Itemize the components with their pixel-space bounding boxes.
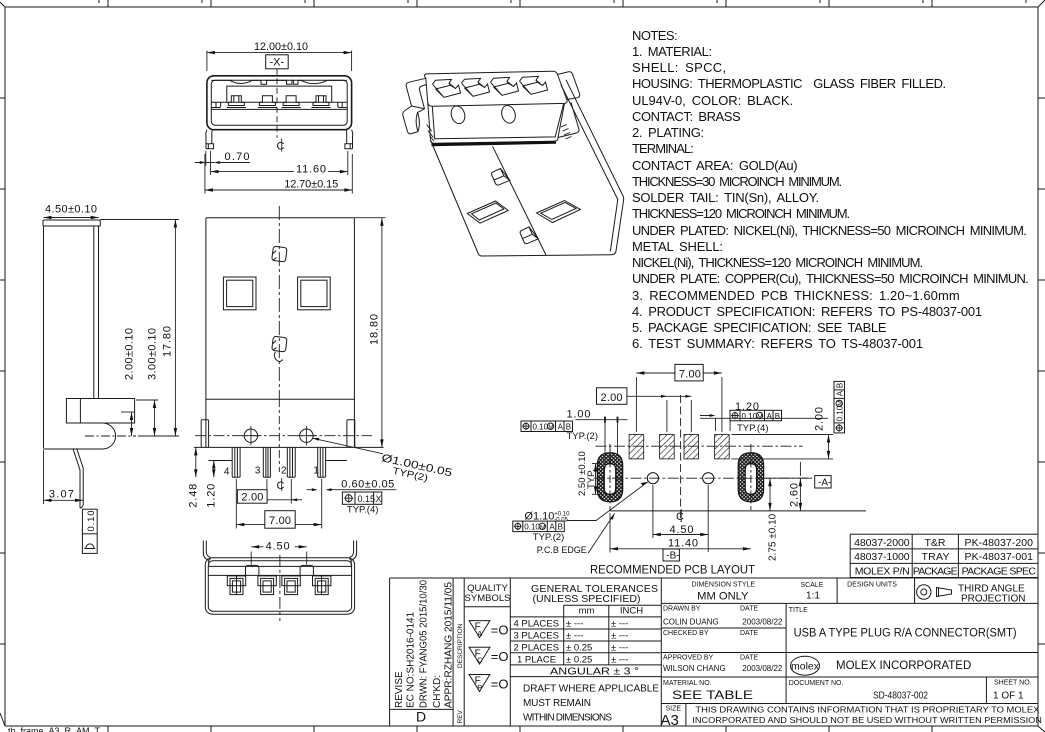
- contact slot 1: [433, 79, 461, 97]
- svg-text:CONTACT: BRASS: CONTACT: BRASS: [632, 109, 741, 124]
- svg-text:5. PACKAGE SPECIFICATION: SEE: 5. PACKAGE SPECIFICATION: SEE TABLE: [632, 320, 887, 335]
- oval centerlines: [610, 444, 751, 510]
- svg-text:M: M: [837, 400, 844, 405]
- svg-text:REVISE: REVISE: [394, 671, 405, 708]
- svg-text:DOCUMENT NO.: DOCUMENT NO.: [789, 680, 844, 687]
- svg-text:A: A: [549, 523, 555, 532]
- dim 0.70: [195, 162, 250, 164]
- hole 1: [647, 473, 658, 484]
- svg-text:4. PRODUCT SPECIFICATION: REFE: 4. PRODUCT SPECIFICATION: REFERS TO PS-4…: [632, 304, 982, 319]
- svg-text:MOLEX P/N: MOLEX P/N: [855, 565, 910, 577]
- svg-text:2003/08/22: 2003/08/22: [742, 664, 783, 673]
- svg-text:=O: =O: [491, 623, 509, 638]
- dim 2.00 vertical right: [732, 435, 834, 459]
- pcb edge: [610, 510, 866, 512]
- molex logo: [791, 656, 820, 675]
- right latch hatch ticks: [427, 125, 572, 142]
- svg-text:2.75 ±0.10: 2.75 ±0.10: [768, 513, 779, 561]
- svg-text:7.00: 7.00: [269, 515, 291, 527]
- svg-text:B: B: [558, 523, 563, 532]
- svg-text:ANGULAR ± 3 °: ANGULAR ± 3 °: [550, 666, 639, 678]
- svg-text:1. MATERIAL:: 1. MATERIAL:: [632, 44, 712, 59]
- svg-text:TRAY: TRAY: [922, 551, 950, 563]
- hole row centerline: [594, 477, 812, 479]
- window left parallelogram: [467, 201, 508, 223]
- solder lead: [73, 448, 83, 508]
- svg-text:1: 1: [313, 466, 319, 477]
- svg-text:PK-48037-200: PK-48037-200: [965, 537, 1034, 549]
- shelf line: [211, 101, 347, 103]
- notes text block: [632, 28, 1029, 351]
- svg-text:± ---: ± ---: [611, 654, 628, 665]
- U slot end: [44, 423, 116, 449]
- svg-text:SYMBOLS: SYMBOLS: [465, 593, 511, 604]
- svg-text:4.50: 4.50: [266, 541, 290, 553]
- contact 3: [282, 576, 300, 595]
- svg-text:=O: =O: [491, 676, 509, 691]
- svg-text:TYP.(4): TYP.(4): [737, 423, 769, 434]
- svg-text:2.00±0.10: 2.00±0.10: [124, 328, 136, 380]
- svg-text:4: 4: [224, 467, 230, 478]
- main body: [431, 80, 624, 256]
- svg-text:0.15: 0.15: [358, 494, 376, 504]
- right band tab: [558, 103, 579, 138]
- dim 7.00 boxed: [636, 377, 722, 432]
- contact bump 2: [259, 96, 275, 106]
- window right parallelogram: [537, 201, 581, 223]
- window right: [298, 277, 331, 310]
- svg-text:=O: =O: [491, 649, 509, 664]
- dim 3.00±0.10: [136, 399, 158, 401]
- dim 2.75±0.10: [769, 478, 771, 511]
- seam latch upper: [492, 169, 510, 186]
- dim 18.80: [354, 217, 385, 219]
- svg-text:0.10: 0.10: [86, 511, 97, 532]
- svg-text:C: C: [277, 141, 285, 153]
- svg-text:4.50±0.10: 4.50±0.10: [45, 204, 97, 216]
- flatness FCF: [82, 509, 97, 553]
- peg circles: [244, 429, 257, 442]
- svg-text:UNDER PLATED: NICKEL(Ni), THIC: UNDER PLATED: NICKEL(Ni), THICKNESS=50 M…: [632, 223, 1027, 238]
- package table: [850, 534, 1038, 577]
- side body top cap: [43, 220, 100, 226]
- svg-text:PACKAGE SPEC: PACKAGE SPEC: [962, 565, 1037, 577]
- datum -A-: [815, 476, 831, 488]
- svg-text:0.60±0.05: 0.60±0.05: [341, 479, 394, 491]
- body top-right edge inner: [561, 85, 618, 252]
- shell outer: [207, 76, 352, 130]
- dim 11.60: [206, 151, 348, 175]
- svg-text:2: 2: [281, 466, 287, 477]
- center seam: [493, 146, 546, 255]
- svg-text:NICKEL(Ni), THICKNESS=120 MICR: NICKEL(Ni), THICKNESS=120 MICROINCH MINI…: [632, 255, 923, 270]
- svg-text:C: C: [676, 511, 684, 523]
- frame zone ticks right: [1038, 98, 1045, 644]
- quality symbol 1: [469, 621, 508, 638]
- svg-text:1 PLACE: 1 PLACE: [517, 654, 556, 665]
- svg-text:DATE: DATE: [740, 654, 758, 661]
- shell inner: [211, 80, 347, 125]
- svg-text:SCALE: SCALE: [801, 582, 824, 589]
- svg-text:± ---: ± ---: [566, 631, 583, 642]
- seam latch lower: [520, 227, 538, 244]
- svg-text:mm: mm: [579, 606, 595, 617]
- svg-text:WITHIN DIMENSIONS: WITHIN DIMENSIONS: [523, 712, 612, 723]
- svg-text:M: M: [757, 414, 762, 421]
- svg-text:2. PLATING:: 2. PLATING:: [632, 125, 704, 140]
- svg-text:48037-2000: 48037-2000: [854, 537, 910, 549]
- contact 1: [227, 576, 245, 595]
- svg-text:TYP.(4): TYP.(4): [347, 505, 379, 516]
- svg-text:PK-48037-001: PK-48037-001: [965, 551, 1034, 563]
- dim 3.07: [43, 450, 45, 504]
- svg-text:TITLE: TITLE: [789, 607, 808, 614]
- svg-text:2003/08/22: 2003/08/22: [742, 617, 783, 626]
- svg-text:P: P: [477, 683, 482, 692]
- svg-text:DESCRIPTION: DESCRIPTION: [457, 623, 464, 668]
- lower section sides: [206, 399, 355, 447]
- svg-text:2.48: 2.48: [188, 484, 200, 508]
- dim 7.00 boxed: [236, 479, 321, 529]
- dim 4.50: [653, 485, 708, 552]
- svg-text:± ---: ± ---: [611, 631, 628, 642]
- FCF pads: [730, 410, 782, 434]
- frame zone ticks left: [0, 98, 5, 644]
- svg-text:11.40: 11.40: [668, 538, 698, 550]
- right mount leg: [347, 420, 355, 448]
- bar divider: [79, 399, 81, 424]
- dim 0.60±0.05: [306, 489, 396, 491]
- svg-text:UL94V-0, COLOR: BLACK.: UL94V-0, COLOR: BLACK.: [632, 93, 793, 108]
- svg-text:CH'KD:: CH'KD:: [432, 675, 443, 708]
- svg-text:6. TEST SUMMARY: REFERS TO TS-: 6. TEST SUMMARY: REFERS TO TS-48037-001: [632, 336, 923, 351]
- svg-text:SEE TABLE: SEE TABLE: [672, 688, 753, 702]
- contact slot 2: [462, 78, 490, 96]
- svg-text:MM ONLY: MM ONLY: [697, 590, 749, 602]
- svg-text:-A-: -A-: [818, 477, 831, 488]
- window left: [223, 277, 256, 310]
- svg-text:USB A TYPE PLUG R/A CONNECTOR(: USB A TYPE PLUG R/A CONNECTOR(SMT): [794, 628, 1017, 640]
- datum -B-: [663, 549, 679, 561]
- svg-text:M: M: [540, 524, 545, 531]
- svg-text:3.07: 3.07: [49, 489, 74, 501]
- band bottom thick edge: [432, 142, 557, 144]
- svg-text:± 0.25: ± 0.25: [566, 643, 592, 654]
- svg-text:DRWN: FYANG05 2015/10/30: DRWN: FYANG05 2015/10/30: [418, 580, 429, 708]
- svg-text:± ---: ± ---: [611, 619, 628, 630]
- svg-text:EC NO:SH2016-0141: EC NO:SH2016-0141: [405, 611, 416, 708]
- svg-text:1.20: 1.20: [206, 484, 218, 508]
- oval slot right: [738, 453, 763, 502]
- left mount leg: [201, 420, 208, 448]
- svg-text:3: 3: [255, 466, 261, 477]
- frame zone ticks bottom: [108, 726, 932, 732]
- contact 2: [258, 576, 276, 595]
- pad 3 hatched: [684, 435, 699, 459]
- svg-text:METAL SHELL:: METAL SHELL:: [632, 239, 723, 254]
- svg-text:COLIN DUANG: COLIN DUANG: [663, 617, 719, 626]
- dim 2.50 typ: [592, 464, 602, 495]
- FCF 0.15 X: [342, 492, 381, 504]
- right hook: [350, 541, 357, 566]
- svg-text:SD-48037-002: SD-48037-002: [873, 690, 928, 702]
- svg-text:17.80: 17.80: [162, 326, 174, 357]
- svg-text:TERMINAL:: TERMINAL:: [632, 141, 694, 156]
- contact bump 3: [283, 96, 299, 106]
- svg-text:APPROVED BY: APPROVED BY: [663, 654, 714, 661]
- tolerance table texts: [531, 583, 658, 605]
- svg-text:(UNLESS SPECIFIED): (UNLESS SPECIFIED): [533, 593, 641, 605]
- quality symbol 2: [469, 647, 508, 664]
- leader to hole 1: [566, 482, 647, 521]
- right shoulder tab: [558, 72, 580, 100]
- svg-text:A: A: [767, 412, 773, 421]
- svg-text:DIMENSION STYLE: DIMENSION STYLE: [692, 580, 756, 589]
- left hook: [203, 541, 210, 566]
- right leg and foot: [345, 130, 353, 149]
- svg-text:INCH: INCH: [620, 606, 643, 617]
- pin 4: [232, 447, 240, 477]
- svg-text:molex: molex: [791, 661, 820, 673]
- svg-text:48037-1000: 48037-1000: [854, 551, 910, 563]
- shell inner: [208, 561, 351, 612]
- top wavy edge with dips: [211, 80, 347, 84]
- svg-text:1 OF 1: 1 OF 1: [993, 691, 1024, 702]
- pin 3: [263, 447, 270, 477]
- latch tab top: [272, 246, 287, 262]
- dim 2.00±0.10: [121, 411, 135, 413]
- hole 2: [703, 473, 714, 484]
- contact bump 1: [228, 96, 244, 106]
- dim 12.70±0.15: [205, 154, 352, 194]
- svg-text:18.80: 18.80: [369, 314, 381, 345]
- svg-text:4 PLACES: 4 PLACES: [514, 619, 559, 630]
- svg-text:NOTES:: NOTES:: [632, 28, 678, 43]
- quality symbols column: [465, 583, 511, 604]
- svg-text:0.10: 0.10: [524, 523, 540, 532]
- quality symbol 3: [469, 675, 508, 692]
- body outline: [206, 218, 355, 400]
- shell top face: [425, 71, 568, 106]
- svg-text:TYP.: TYP.: [586, 469, 597, 489]
- side body: [43, 226, 100, 448]
- svg-text:A3: A3: [661, 712, 679, 729]
- svg-text:B: B: [775, 412, 780, 421]
- bump left: [246, 565, 259, 575]
- svg-text:-B-: -B-: [666, 551, 679, 562]
- pin 1: [318, 447, 326, 477]
- dim 11.40: [609, 513, 611, 553]
- interior top line: [208, 565, 351, 567]
- svg-text:SHEET NO.: SHEET NO.: [994, 680, 1032, 687]
- solder bracket bar: [66, 399, 134, 424]
- svg-text:TYP.(2): TYP.(2): [533, 532, 565, 543]
- datum box -X-: [266, 55, 289, 69]
- svg-text:2 PLACES: 2 PLACES: [514, 643, 559, 654]
- contact 4: [313, 576, 331, 595]
- svg-text:TYP.(2): TYP.(2): [567, 431, 599, 442]
- latch tab bottom: [272, 336, 287, 361]
- lower interior line: [211, 108, 347, 110]
- svg-text:MUST REMAIN: MUST REMAIN: [523, 698, 591, 709]
- pattern vertical centerline: [680, 395, 682, 522]
- dim 17.80: [100, 220, 179, 437]
- svg-text:± 0.25: ± 0.25: [566, 654, 592, 665]
- svg-text:HOUSING: THERMOPLASTIC GLASS: HOUSING: THERMOPLASTIC GLASS FIBER FILLE…: [632, 76, 946, 91]
- svg-text:B: B: [836, 383, 845, 388]
- bump right: [300, 565, 313, 575]
- svg-text:M: M: [548, 424, 553, 431]
- horizontal centerline: [195, 435, 372, 437]
- svg-text:0.10: 0.10: [533, 423, 549, 432]
- svg-text:PROJECTION: PROJECTION: [961, 594, 1025, 605]
- svg-text:PACKAGE: PACKAGE: [913, 565, 958, 577]
- svg-text:DRAWN BY: DRAWN BY: [663, 606, 701, 613]
- dim 4.50: [251, 552, 307, 565]
- svg-text:2.00: 2.00: [814, 407, 826, 431]
- svg-text:SOLDER TAIL: TIN(Sn), ALLOY.: SOLDER TAIL: TIN(Sn), ALLOY.: [632, 190, 819, 205]
- svg-text:4.50: 4.50: [670, 524, 694, 536]
- svg-text:UNDER PLATE: COPPER(Cu), THICK: UNDER PLATE: COPPER(Cu), THICKNESS=50 MI…: [632, 271, 1029, 286]
- svg-text:X: X: [376, 494, 382, 504]
- FCF vertical right: [834, 381, 845, 433]
- svg-text:tb_frame_A3_R_AM_T: tb_frame_A3_R_AM_T: [8, 726, 101, 732]
- pad row centerline: [596, 445, 803, 447]
- svg-text:DRAFT WHERE APPLICABLE: DRAFT WHERE APPLICABLE: [523, 684, 659, 695]
- svg-text:SHELL: SPCC,: SHELL: SPCC,: [632, 60, 726, 75]
- svg-text:C: C: [477, 656, 483, 665]
- svg-text:± ---: ± ---: [611, 643, 628, 654]
- svg-text:0.70: 0.70: [225, 151, 250, 163]
- svg-text:WILSON CHANG: WILSON CHANG: [663, 664, 726, 673]
- svg-text:12.70±0.15: 12.70±0.15: [284, 179, 338, 191]
- vertical centerline: [279, 555, 281, 621]
- divider: [208, 574, 351, 576]
- svg-text:2.60: 2.60: [789, 483, 801, 507]
- svg-text:A: A: [477, 629, 482, 638]
- contact bump 4: [313, 96, 329, 106]
- svg-text:1.00: 1.00: [567, 409, 591, 421]
- svg-text:0.10: 0.10: [742, 412, 758, 421]
- svg-text:MATERIAL NO.: MATERIAL NO.: [663, 680, 712, 687]
- pad steps: [209, 460, 347, 462]
- svg-text:CHECKED BY: CHECKED BY: [663, 630, 709, 637]
- oval slot left: [597, 453, 622, 502]
- pad 4 hatched: [715, 435, 730, 459]
- svg-text:DATE: DATE: [740, 606, 758, 613]
- svg-text:0.10: 0.10: [836, 405, 845, 421]
- pad 1 hatched: [629, 435, 644, 459]
- svg-text:DATE: DATE: [740, 630, 758, 637]
- pad 2 hatched: [660, 435, 675, 459]
- dim 2.00 boxed: [667, 400, 691, 432]
- title block frame: [390, 578, 1038, 726]
- shell outer: [205, 558, 354, 615]
- housing front band: [428, 103, 565, 143]
- dim 2.00 boxed: [267, 479, 291, 504]
- title block left rotated texts: [394, 580, 454, 708]
- svg-text:C: C: [277, 480, 285, 492]
- tongue outline: [227, 86, 332, 102]
- vertical centerline: [278, 206, 280, 399]
- svg-text:12.00±0.10: 12.00±0.10: [254, 41, 308, 53]
- seating line: [194, 446, 384, 448]
- link line: [700, 417, 828, 419]
- left leg and foot: [206, 130, 214, 149]
- svg-text:± ---: ± ---: [566, 619, 583, 630]
- svg-text:MOLEX INCORPORATED: MOLEX INCORPORATED: [836, 660, 971, 672]
- left latch hook: [403, 78, 427, 134]
- svg-text:11.60: 11.60: [296, 164, 326, 176]
- svg-text:2.00: 2.00: [241, 491, 263, 503]
- svg-text:RECOMMENDED PCB LAYOUT: RECOMMENDED PCB LAYOUT: [590, 563, 756, 577]
- svg-text:-X-: -X-: [270, 57, 285, 69]
- frame zone ticks top: [99, 0, 1026, 7]
- svg-text:P.C.B EDGE: P.C.B EDGE: [537, 545, 587, 556]
- contact slot 4: [520, 76, 548, 94]
- FCF holes: [513, 521, 565, 543]
- contact slot 3: [491, 77, 519, 95]
- svg-text:INCORPORATED AND SHOULD NOT BE: INCORPORATED AND SHOULD NOT BE USED WITH…: [692, 715, 1042, 725]
- svg-text:A: A: [836, 390, 845, 396]
- svg-text:3 PLACES: 3 PLACES: [514, 631, 559, 642]
- dim 12.00±0.10: [207, 51, 352, 72]
- leader dia 1.00: [313, 438, 383, 454]
- svg-text:2.00: 2.00: [601, 392, 623, 404]
- FCF left (ovals): [521, 421, 598, 442]
- svg-text:A: A: [558, 423, 564, 432]
- svg-text:CONTACT AREA: GOLD(Au): CONTACT AREA: GOLD(Au): [632, 158, 798, 173]
- dim 1.20: [213, 461, 215, 478]
- svg-text:THICKNESS=30 MICROINCH MINIMUM: THICKNESS=30 MICROINCH MINIMUM.: [632, 174, 842, 189]
- svg-text:3.00±0.10: 3.00±0.10: [147, 328, 159, 380]
- centerline through U: [85, 435, 136, 437]
- svg-text:7.00: 7.00: [679, 368, 701, 380]
- svg-text:T&R: T&R: [925, 537, 946, 549]
- svg-text:3. RECOMMENDED PCB THICKNESS:: 3. RECOMMENDED PCB THICKNESS: 1.20~1.60m…: [632, 288, 960, 303]
- svg-text:D: D: [416, 709, 426, 725]
- oval hole right: [500, 104, 518, 125]
- dim 2.48: [195, 447, 197, 477]
- oval hole left: [449, 104, 467, 125]
- side steps: [211, 102, 347, 107]
- svg-text:APPR:RZHANG 2015/11/05: APPR:RZHANG 2015/11/05: [443, 582, 454, 708]
- svg-text:THICKNESS=120 MICROINCH MINIMU: THICKNESS=120 MICROINCH MINIMUM.: [632, 206, 850, 221]
- svg-text:1:1: 1:1: [806, 591, 820, 602]
- dim 2.60: [799, 478, 801, 511]
- svg-text:DESIGN UNITS: DESIGN UNITS: [847, 582, 897, 589]
- third angle projection symbol: [917, 585, 952, 599]
- centerline vertical dashed: [276, 69, 278, 138]
- drawn/checked/approved cells: [663, 606, 1032, 713]
- svg-text:REV: REV: [457, 709, 464, 723]
- pin 2: [287, 447, 295, 477]
- svg-text:THIS DRAWING CONTAINS INFORMAT: THIS DRAWING CONTAINS INFORMATION THAT I…: [695, 705, 1039, 715]
